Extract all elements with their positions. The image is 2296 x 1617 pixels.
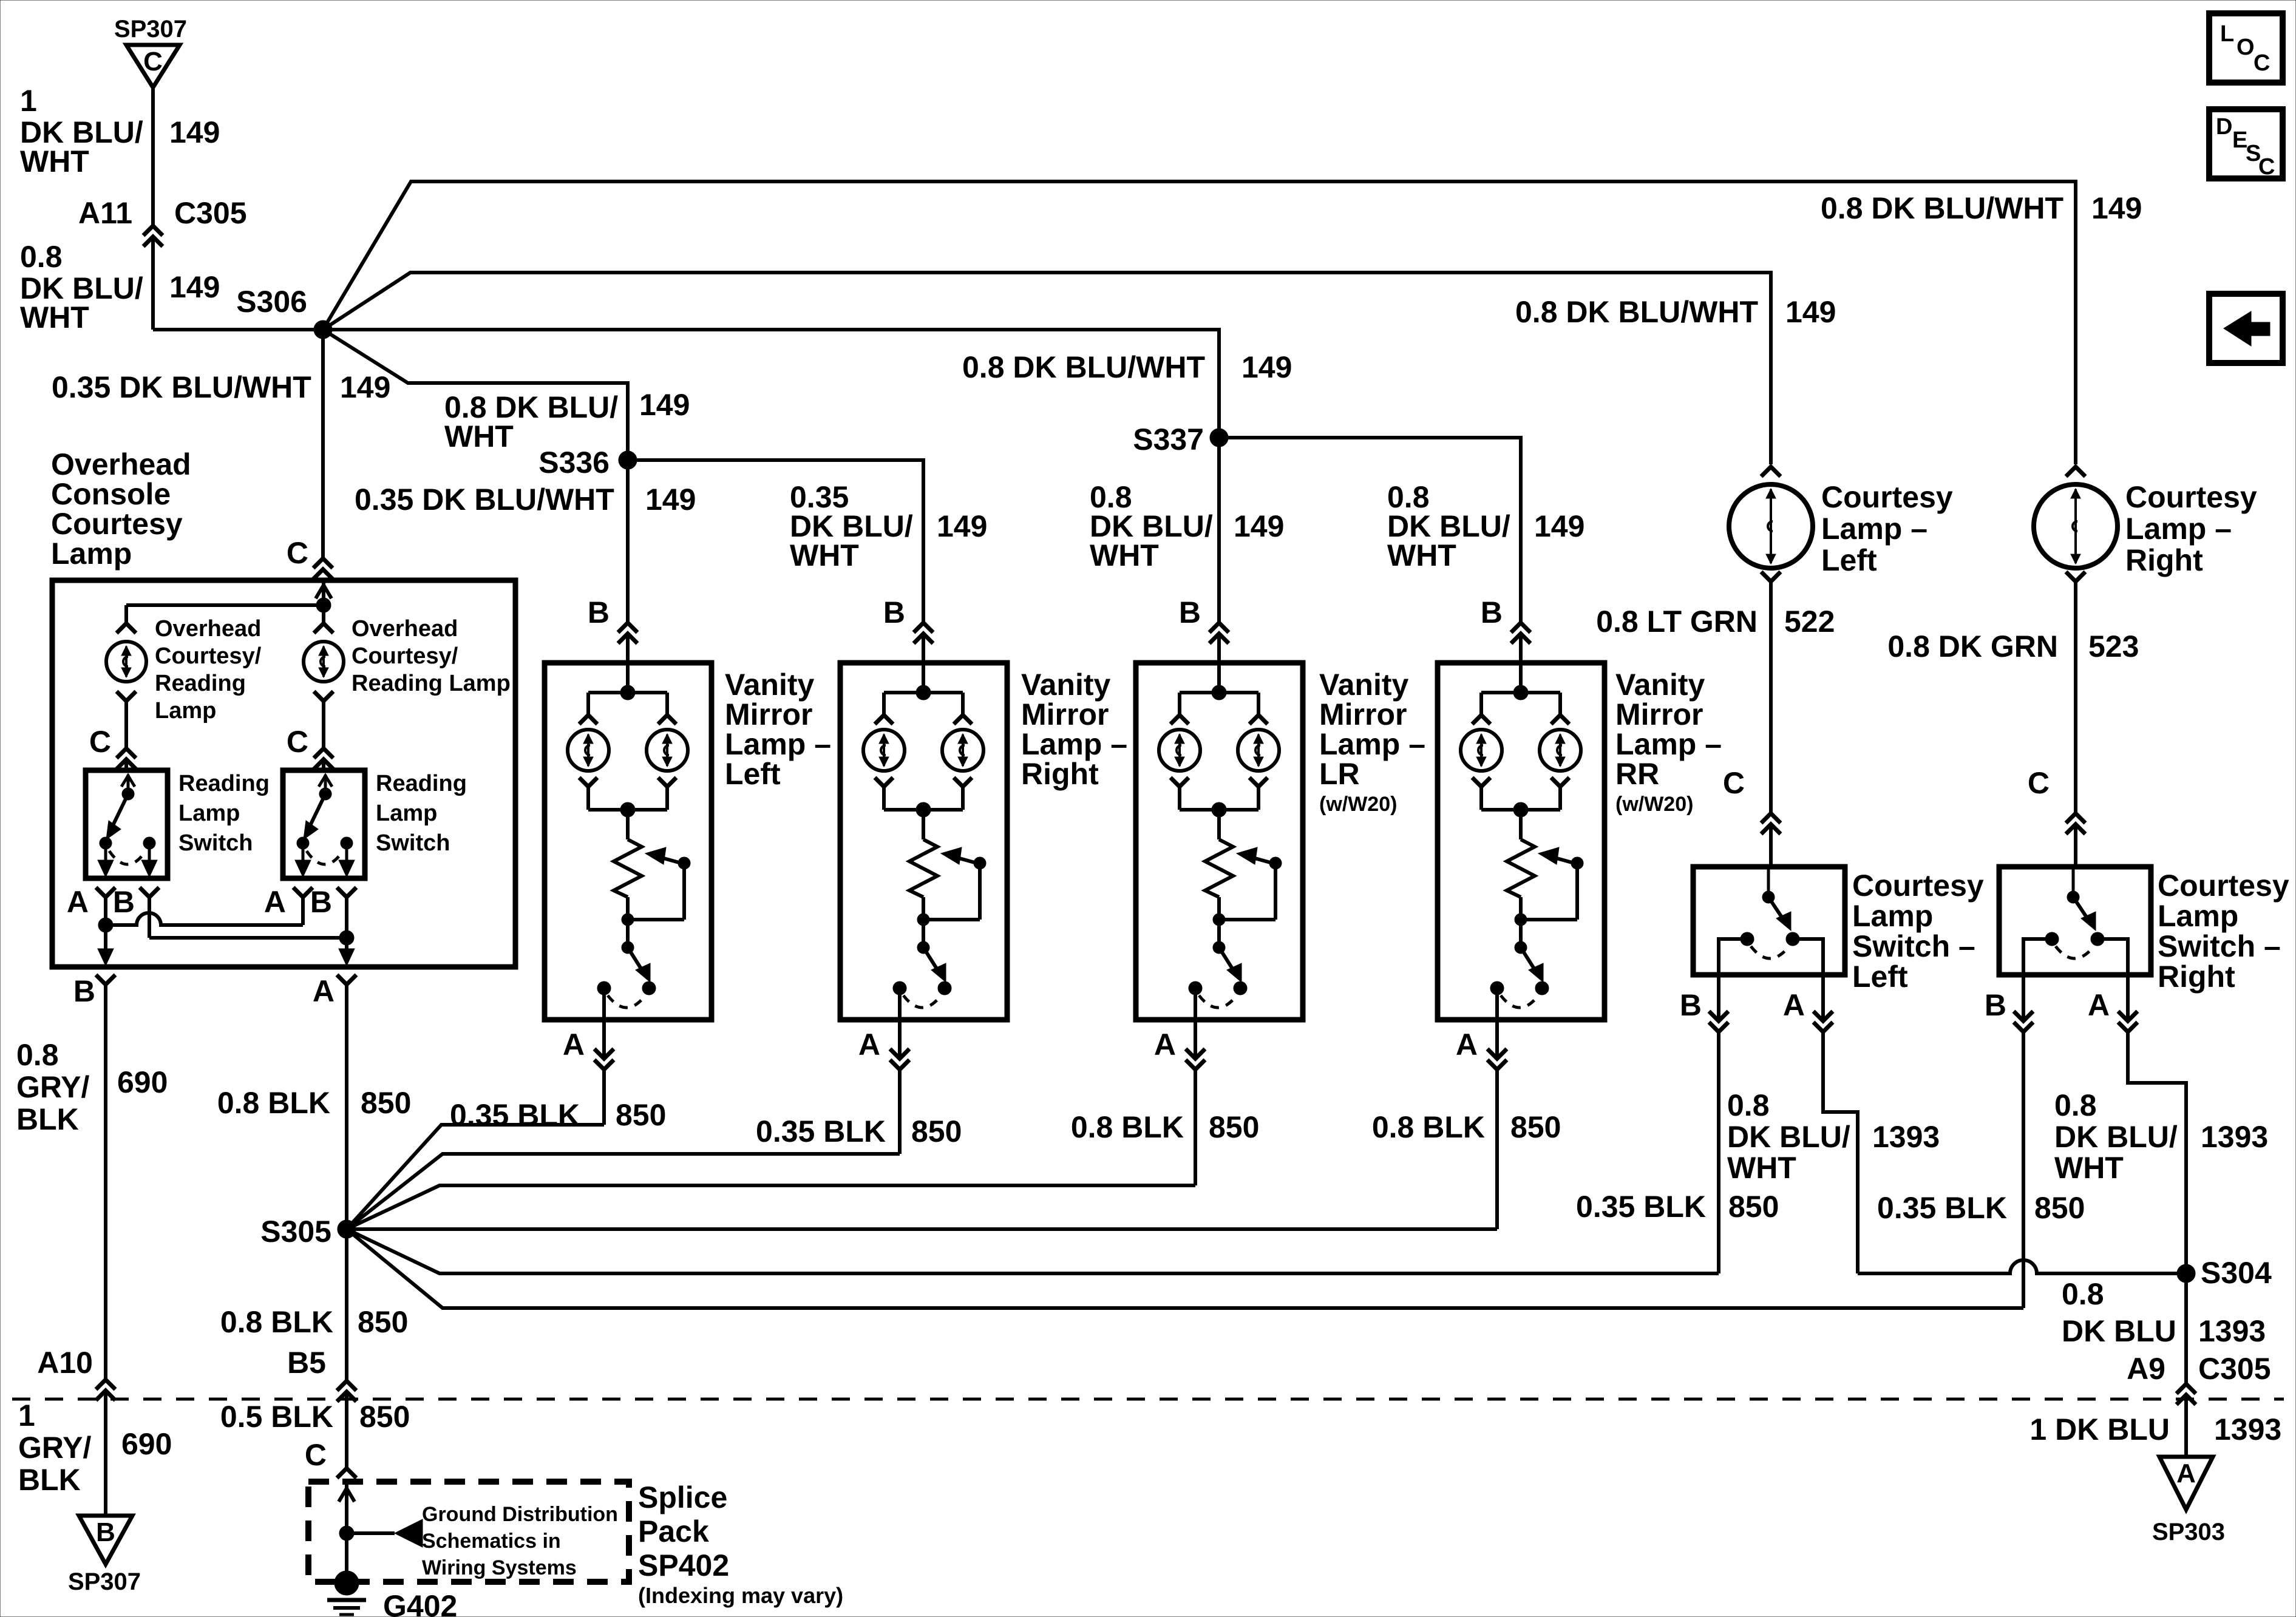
switch contacts vanity LR [1189,981,1247,1008]
svg-text:(w/W20): (w/W20) [1319,793,1397,816]
svg-text:B: B [588,595,610,629]
svg-text:Courtesy: Courtesy [2125,480,2257,514]
svg-text:Console: Console [51,477,171,511]
svg-text:DK BLU/: DK BLU/ [2054,1120,2178,1154]
svg-text:Lamp –: Lamp – [2125,512,2232,546]
svg-text:Mirror: Mirror [725,697,812,731]
svg-text:B: B [883,595,905,629]
svg-text:0.8 BLK: 0.8 BLK [220,1305,333,1339]
svg-text:850: 850 [359,1400,410,1434]
label 0.8 DK GRN 523 [1887,629,2139,663]
svg-text:GRY/: GRY/ [16,1070,89,1104]
wire tying A pins of reading lamp switches [98,898,303,966]
svg-text:C: C [2028,766,2050,800]
svg-text:Right: Right [2125,543,2203,577]
pin A under vanity RR [1456,988,1507,1070]
label 0.8 DK BLU/WHT 149 [20,240,220,334]
wire tying B pins of reading lamp switches [149,898,355,966]
pins A and B under reading lamp switch right [264,885,356,919]
svg-text:B: B [73,974,95,1008]
label 0.8 DK BLU/WHT 149 (S337 feed) [962,350,1292,384]
splice pack SP402 dashed box [308,1482,629,1582]
splice S304 [2177,1256,2272,1290]
vanity mirror lamp LR box [1136,663,1303,1020]
label reading lamp switch left [178,771,270,856]
terminals below vanity right bulbs [875,778,972,787]
wire from left bulb to switch pin C [124,702,128,747]
svg-text:B5: B5 [287,1346,326,1380]
svg-text:LR: LR [1319,757,1360,791]
svg-text:0.8: 0.8 [16,1038,59,1072]
svg-text:C: C [2254,50,2270,76]
pin A under vanity left [563,988,614,1070]
svg-text:149: 149 [1234,509,1284,543]
splice S337 [1133,422,1228,456]
svg-text:Lamp –: Lamp – [1319,727,1425,761]
svg-text:Lamp: Lamp [2158,899,2238,933]
label 0.35 BLK 850 (vanity right ground) [756,1114,962,1148]
svg-text:WHT: WHT [790,538,859,572]
terminals below vanity left bulbs [579,778,676,787]
svg-text:0.35 BLK: 0.35 BLK [1576,1190,1706,1224]
label Vanity Mirror Lamp LR (w/W20) [1319,668,1425,816]
svg-text:0.35 BLK: 0.35 BLK [1877,1191,2007,1225]
label 0.8 BLK 850 (lower) [220,1305,409,1339]
svg-text:SP303: SP303 [2152,1519,2225,1545]
switch contacts vanity right [893,981,951,1008]
connector pin C right reading lamp switch [287,725,333,770]
svg-text:D: D [2216,114,2232,140]
label 0.8 DK BLU/WHT 149 (S336 feed) [444,388,690,453]
overhead courtesy/reading lamp bulb right [304,642,344,682]
rheostat dimmer resistor right [909,810,937,920]
label 0.8 BLK 850 (vanity RR ground) [1372,1110,1561,1144]
svg-text:522: 522 [1784,605,1835,639]
terminal below overhead left bulb [117,691,136,701]
wire to overhead left bulb [124,605,128,622]
svg-text:Mirror: Mirror [1319,697,1407,731]
wire 0.8 BLK 850 from console to S305 [345,986,348,1229]
svg-text:SP402: SP402 [638,1548,729,1582]
svg-text:A: A [67,885,89,919]
svg-text:Vanity: Vanity [725,668,814,702]
wire 0.8 DK BLU/WHT 1393 from courtesy switch right pin A to S304 [2128,1033,2186,1273]
label 0.35 BLK 850 (courtesy left ground) [1576,1190,1779,1224]
label 0.5 BLK 850 [220,1400,410,1434]
svg-text:A: A [858,1028,880,1062]
svg-text:Lamp: Lamp [155,698,216,724]
svg-text:Pack: Pack [638,1514,709,1548]
svg-text:A: A [1456,1028,1478,1062]
switch contacts vanity RR [1490,981,1549,1008]
wire 0.8 DK BLU 1393 from S304 to A9 [2184,1273,2188,1383]
svg-text:B: B [1680,988,1702,1022]
svg-text:Reading: Reading [155,671,246,696]
svg-text:0.35 BLK: 0.35 BLK [450,1098,580,1132]
label 0.35 DK BLU/WHT 149 [52,370,390,404]
label Courtesy Lamp Switch Right [2158,869,2289,994]
svg-text:523: 523 [2088,629,2139,663]
svg-text:Lamp: Lamp [178,801,240,826]
wire 0.8 BLK 850 from S305 to B5 [345,1229,348,1380]
svg-text:Courtesy: Courtesy [2158,869,2289,903]
svg-text:Splice: Splice [638,1480,727,1514]
svg-text:0.5 BLK: 0.5 BLK [220,1400,333,1434]
wire 0.35 BLK 850 from courtesy switch left pin B to S305 [1717,1033,1720,1273]
switch arm reading lamp switch left [106,775,135,839]
svg-text:C: C [143,47,163,76]
ground fan wires from splice S305 [347,1125,2023,1308]
svg-text:Reading: Reading [178,771,270,796]
svg-text:A10: A10 [37,1346,93,1380]
rheostat dimmer resistor RR [1507,810,1535,920]
label 0.8 BLK 850 (upper) [217,1086,412,1120]
svg-text:Reading: Reading [376,771,467,796]
label 0.8 GRY/BLK 690 [16,1038,168,1136]
svg-text:0.8 LT GRN: 0.8 LT GRN [1596,605,1758,639]
ground wire 0.8 BLK 850 from vanity RR [1495,1071,1499,1229]
svg-text:850: 850 [1728,1190,1779,1224]
svg-text:Left: Left [1852,960,1908,994]
terminals above vanity left bulbs [579,715,676,724]
svg-text:S336: S336 [538,446,610,480]
wire 1 DK BLU/WHT 149 from SP307 to C305 [151,87,155,225]
svg-text:A: A [2088,988,2110,1022]
svg-text:Mirror: Mirror [1615,697,1703,731]
label 0.35 BLK 850 (courtesy right ground) [1877,1191,2085,1225]
wire 0.8 GRY/BLK 690 down to A10 [104,986,107,1378]
ground wire 0.35 BLK 850 from vanity right [898,1071,902,1154]
svg-text:Lamp –: Lamp – [1615,727,1722,761]
vanity mirror lamp RR box [1438,663,1605,1020]
svg-text:850: 850 [361,1086,411,1120]
svg-text:G402: G402 [383,1589,457,1617]
label 0.35 BLK 850 (vanity left ground) [450,1098,666,1132]
label overhead courtesy reading lamp left [155,616,262,724]
svg-text:1: 1 [18,1398,35,1432]
node junction inside console [126,598,331,612]
label 0.8 BLK 850 (vanity LR ground) [1071,1110,1260,1144]
label overhead courtesy reading lamp right [352,616,511,696]
svg-text:C: C [2258,154,2275,180]
svg-text:Lamp: Lamp [1852,899,1933,933]
pins B and A under courtesy lamp switch left [1680,975,1833,1032]
vanity left bulb 1 [568,730,609,771]
switch arm vanity RR [1515,920,1543,982]
svg-text:149: 149 [340,370,390,404]
svg-text:850: 850 [358,1305,408,1339]
svg-text:SP307: SP307 [114,16,187,42]
svg-text:1 DK BLU: 1 DK BLU [2029,1412,2170,1446]
svg-text:690: 690 [117,1065,168,1099]
svg-text:A: A [264,885,286,919]
back arrow navigation box [2209,294,2283,363]
rheostat wiper arm left [622,847,690,926]
node bulb feed junction right [884,663,963,714]
node bulb return junction right [884,788,963,817]
wire to overhead right bulb [322,605,325,622]
svg-text:Switch: Switch [376,830,450,856]
switch contacts courtesy lamp switch right [2023,932,2128,975]
svg-text:149: 149 [169,270,220,304]
label 1 GRY/BLK 690 [18,1398,172,1497]
switch arm vanity right [917,920,946,982]
node bulb feed junction left [588,663,667,714]
label 1 DK BLU 1393 [2029,1412,2281,1446]
vanity LR bulb 1 [1159,730,1200,771]
svg-text:SP307: SP307 [68,1568,141,1595]
rheostat dimmer resistor left [614,810,642,920]
svg-text:C: C [287,536,308,570]
label 0.8 DK BLU/WHT 149 (top right) [1821,191,2142,225]
node bulb feed junction LR [1180,663,1258,714]
svg-text:(Indexing may vary): (Indexing may vary) [638,1583,843,1608]
terminal above courtesy lamp right [2066,467,2085,476]
svg-text:149: 149 [169,115,220,149]
svg-text:0.8: 0.8 [20,240,63,274]
svg-text:0.8 DK BLU/WHT: 0.8 DK BLU/WHT [962,350,1205,384]
svg-text:Mirror: Mirror [1021,697,1109,731]
svg-text:Schematics in: Schematics in [422,1530,561,1553]
svg-text:1393: 1393 [2214,1412,2281,1446]
ground triangle SP307 connector B [68,1516,141,1595]
svg-text:B: B [1179,595,1201,629]
reading lamp switch box right [283,770,365,878]
connector C305 pin A11 [78,196,247,246]
wire 0.8 DK BLU/WHT 1393 from courtesy switch left pin A to S304 [1823,1033,2186,1273]
svg-text:DK BLU/: DK BLU/ [1727,1120,1850,1154]
switch arm courtesy lamp switch right [2067,867,2096,931]
svg-text:C: C [305,1438,327,1472]
svg-text:C305: C305 [2198,1352,2271,1386]
wire branch 0.8 DK BLU/WHT to S336 [323,330,628,451]
label 0.8 DK BLU/WHT 149 (vanity LR feed) [1090,480,1284,572]
svg-text:C: C [1723,766,1745,800]
dashed harness separator line [12,1398,2284,1401]
label Overhead Console Courtesy Lamp [51,447,191,571]
rheostat dimmer resistor LR [1205,810,1233,920]
node bulb return junction LR [1180,788,1258,817]
svg-text:A: A [1783,988,1805,1022]
svg-text:149: 149 [639,388,690,422]
wire from courtesy lamp left to switch pin C [1723,583,1781,867]
svg-text:Wiring Systems: Wiring Systems [422,1556,577,1579]
node branch to ground distribution reference [339,1519,423,1547]
wire branch 0.8 DK BLU/WHT to courtesy lamp right [323,181,2076,464]
wire from courtesy lamp right to switch pin C [2028,583,2085,867]
svg-text:Courtesy/: Courtesy/ [352,643,458,669]
label Vanity Mirror Lamp RR (w/W20) [1615,668,1722,816]
terminals below vanity RR bulbs [1472,778,1569,787]
svg-text:WHT: WHT [2054,1151,2124,1185]
wire 0.35 DK BLU/WHT from S306 down to overhead console [321,330,325,558]
splice S306 [236,285,332,339]
DESC reference box [2209,109,2283,180]
label Courtesy Lamp Switch Left [1852,869,1984,994]
switch contacts reading lamp switch right [295,837,355,877]
svg-text:Overhead: Overhead [51,447,191,481]
wire from right bulb to switch pin C [322,702,325,747]
vanity left bulb 2 [647,730,688,771]
svg-text:S337: S337 [1133,422,1204,456]
svg-text:A: A [2176,1459,2196,1488]
svg-text:149: 149 [1241,350,1292,384]
svg-text:Switch: Switch [178,830,253,856]
reading lamp switch box left [86,770,168,878]
svg-text:0.35 BLK: 0.35 BLK [756,1114,886,1148]
svg-text:A11: A11 [78,196,132,230]
svg-text:0.35 DK BLU/WHT: 0.35 DK BLU/WHT [355,483,614,517]
svg-text:B: B [1481,595,1503,629]
svg-text:0.8 BLK: 0.8 BLK [1071,1110,1184,1144]
svg-text:1: 1 [20,84,37,118]
svg-text:Vanity: Vanity [1615,668,1705,702]
svg-text:690: 690 [121,1427,172,1461]
svg-text:A: A [1154,1028,1176,1062]
svg-text:RR: RR [1615,757,1659,791]
label 0.8 LT GRN 522 [1596,605,1835,639]
label 1 DK BLU/WHT 149 [20,84,220,178]
svg-text:WHT: WHT [1090,538,1159,572]
svg-text:Lamp –: Lamp – [1821,512,1927,546]
svg-text:850: 850 [911,1114,962,1148]
svg-text:DK BLU: DK BLU [2062,1314,2176,1348]
svg-text:Overhead: Overhead [155,616,261,642]
svg-text:Lamp –: Lamp – [1021,727,1127,761]
svg-text:Reading Lamp: Reading Lamp [352,671,511,696]
label reading lamp switch right [376,771,467,856]
svg-text:850: 850 [1510,1110,1561,1144]
svg-text:S306: S306 [236,285,307,319]
label Vanity Mirror Lamp Left [725,668,831,791]
ground wire 0.35 BLK 850 from vanity left [602,1071,606,1125]
svg-text:Ground Distribution: Ground Distribution [422,1503,618,1526]
switch contacts reading lamp switch left [98,837,157,877]
label Ground Distribution Schematics in Wiring Systems [422,1503,618,1579]
svg-text:0.8: 0.8 [2054,1088,2097,1122]
svg-text:B: B [96,1517,115,1547]
terminal below courtesy lamp left [1761,572,1781,581]
label 0.8 DK BLU/WHT 1393 (switch right) [2054,1088,2268,1185]
LOC reference box [2209,13,2283,83]
label 0.8 DK BLU 1393 [2062,1277,2266,1348]
node bulb feed junction RR [1481,663,1560,714]
svg-text:149: 149 [1785,295,1836,329]
connector pin C of overhead console [287,536,333,579]
svg-text:A: A [313,974,335,1008]
power feed triangle SP307 connector C [114,16,187,87]
switch contacts vanity left [597,981,656,1008]
svg-text:149: 149 [1534,509,1584,543]
svg-text:0.8 BLK: 0.8 BLK [1372,1110,1485,1144]
terminal above overhead right bulb [314,623,333,633]
rheostat wiper arm RR [1515,847,1583,926]
svg-text:Courtesy: Courtesy [1852,869,1984,903]
svg-text:GRY/: GRY/ [18,1431,91,1465]
svg-text:A: A [563,1028,585,1062]
wire 0.35 DK BLU/WHT from S336 to vanity right pin B [628,460,933,663]
label 0.8 DK BLU/WHT 149 (courtesy left feed) [1515,295,1836,329]
svg-text:0.8: 0.8 [1727,1088,1770,1122]
svg-text:Vanity: Vanity [1021,668,1110,702]
svg-text:Right: Right [1021,757,1099,791]
node bulb return junction RR [1481,788,1560,817]
svg-text:Overhead: Overhead [352,616,458,642]
connector C305 pin A9 [2127,1352,2271,1457]
svg-text:B: B [310,885,332,919]
label 0.8 DK BLU/WHT 149 (vanity RR feed) [1387,480,1584,572]
terminals above vanity right bulbs [875,715,972,724]
splice S305 [260,1215,356,1249]
courtesy lamp switch left box [1693,867,1845,975]
vanity mirror lamp left box [545,663,712,1020]
ground wire 0.8 BLK 850 from vanity LR [1194,1071,1197,1185]
svg-text:Left: Left [1821,543,1877,577]
pin A under overhead console [313,974,356,1008]
svg-text:Switch –: Switch – [2158,929,2281,963]
vanity right bulb 1 [863,730,905,771]
rheostat wiper arm LR [1213,847,1282,926]
svg-text:O: O [2237,35,2255,60]
svg-text:C305: C305 [174,196,247,230]
svg-text:S305: S305 [260,1215,331,1249]
svg-text:Lamp: Lamp [51,537,132,571]
label 0.35 DK BLU/WHT 149 (vanity right feed) [790,480,987,572]
terminals below vanity LR bulbs [1170,778,1268,787]
courtesy lamp right bulb [2034,484,2118,568]
pin A under vanity right [858,988,909,1070]
svg-text:850: 850 [1209,1110,1259,1144]
overhead console courtesy lamp box [52,580,515,967]
svg-text:149: 149 [645,483,696,517]
connector C305 pin A10 [37,1346,115,1516]
svg-text:WHT: WHT [444,419,514,453]
svg-text:Courtesy: Courtesy [51,507,183,541]
pin B under overhead console [73,974,115,1008]
svg-text:0.8 DK GRN: 0.8 DK GRN [1887,629,2058,663]
vanity RR bulb 1 [1461,730,1502,771]
overhead courtesy/reading lamp bulb left [106,642,146,682]
svg-text:WHT: WHT [20,144,89,178]
wire 0.8 DK BLU/WHT from S337 to vanity LR pin B [1179,447,1229,663]
svg-text:WHT: WHT [1727,1151,1796,1185]
splice S336 [538,446,637,480]
ground G402 [327,1533,457,1617]
terminal below overhead right bulb [314,691,333,701]
label 0.35 DK BLU/WHT 149 (vanity left feed) [355,483,696,517]
wire 0.35 BLK 850 from courtesy switch right pin B to S305 [2022,1033,2025,1308]
wire 0.8 DK BLU/WHT from S337 to vanity RR pin B [1219,438,1530,663]
svg-text:149: 149 [2091,191,2142,225]
vanity mirror lamp right box [840,663,1007,1020]
svg-text:Vanity: Vanity [1319,668,1408,702]
svg-text:0.8 DK BLU/WHT: 0.8 DK BLU/WHT [1821,191,2063,225]
switch arm vanity LR [1213,920,1241,982]
svg-text:0.35 DK BLU/WHT: 0.35 DK BLU/WHT [52,370,311,404]
svg-text:C: C [89,725,111,759]
svg-text:WHT: WHT [1387,538,1456,572]
courtesy lamp left bulb [1729,484,1813,568]
label Splice Pack SP402 [638,1480,843,1608]
svg-text:(w/W20): (w/W20) [1615,793,1693,816]
terminal below courtesy lamp right [2066,572,2085,581]
svg-text:BLK: BLK [18,1463,81,1497]
terminals above vanity RR bulbs [1472,715,1569,724]
svg-text:B: B [1985,988,2006,1022]
svg-text:A9: A9 [2127,1352,2165,1386]
svg-text:0.8 DK BLU/WHT: 0.8 DK BLU/WHT [1515,295,1758,329]
svg-text:Lamp –: Lamp – [725,727,831,761]
